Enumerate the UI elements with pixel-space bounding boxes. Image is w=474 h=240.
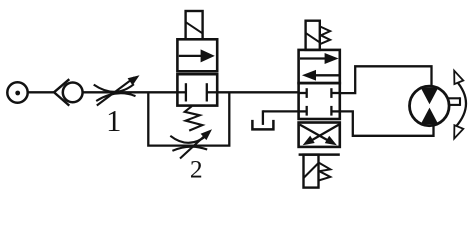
svg-text:2: 2 xyxy=(190,154,203,183)
svg-text:1: 1 xyxy=(106,104,121,138)
